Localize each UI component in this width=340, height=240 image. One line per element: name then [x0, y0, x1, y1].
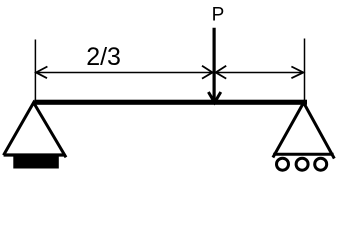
dimension arrowhead pointing left at load — [216, 66, 227, 79]
right support triangle base line — [273, 153, 333, 156]
right extension line — [304, 39, 306, 101]
left extension line — [34, 40, 36, 101]
beam — [34, 100, 307, 105]
roller circle 1 — [277, 158, 289, 170]
left support triangle base line — [4, 153, 65, 156]
roller circle 2 — [296, 158, 308, 170]
dimension line right segment — [216, 71, 304, 73]
roller circle 3 — [315, 158, 327, 170]
right support triangle legs — [273, 103, 334, 159]
left support triangle legs — [4, 103, 67, 158]
dimension arrowhead left end — [36, 67, 47, 79]
dimension arrowhead right end — [291, 67, 303, 79]
svg-text:P: P — [212, 5, 225, 26]
force arrowhead — [208, 92, 220, 103]
left support base block — [13, 156, 59, 169]
dimension arrowhead pointing right at load — [202, 66, 213, 79]
dimension line left segment — [36, 71, 213, 73]
svg-text:2/3: 2/3 — [86, 43, 121, 71]
force arrow P shaft — [213, 28, 216, 101]
